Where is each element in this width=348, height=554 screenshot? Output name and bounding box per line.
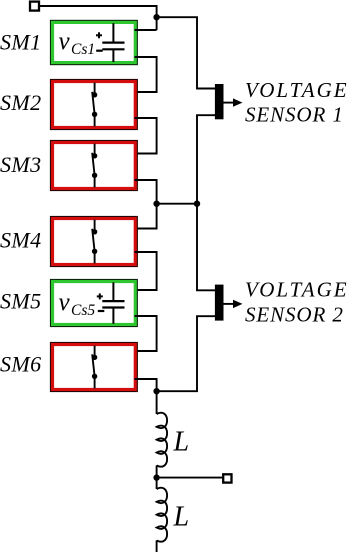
wire branch to voltage sensor 1 top — [157, 17, 215, 88]
submodule SM4 box (red) — [50, 216, 138, 267]
wire bottom tail — [156, 540, 158, 552]
capacitor Cs1 — [96, 23, 125, 62]
svg-text:VOLTAGE: VOLTAGE — [245, 78, 348, 102]
submodule SM5 box (green) — [50, 279, 138, 327]
switch S4 — [92, 220, 97, 264]
svg-text:v: v — [59, 289, 71, 316]
terminal T1 (top-left input square) — [30, 2, 39, 11]
svg-text:v: v — [59, 28, 71, 55]
node N4 (junction dot bottom bus) — [153, 388, 159, 394]
label VOLTAGE SENSOR 2 — [245, 278, 348, 327]
svg-text:SM1: SM1 — [0, 29, 42, 54]
capacitor Cs5 — [97, 282, 125, 323]
label vCs5 — [59, 289, 96, 319]
node N1 (junction dot top bus) — [153, 14, 159, 20]
voltage sensor 2 symbol (bar) — [215, 285, 224, 321]
wire coil1 to node N5 — [156, 465, 158, 489]
wire voltage sensor 2 bottom return — [157, 316, 215, 391]
switch S6 — [92, 346, 97, 389]
switch S2 — [92, 83, 97, 127]
svg-text:SENSOR 2: SENSOR 2 — [245, 302, 344, 326]
arrow of sensor 1 — [224, 102, 236, 104]
wire SM4 bottom to SM5 top — [135, 252, 157, 290]
wire top terminal to bus — [39, 6, 157, 30]
node N3 (junction dot on sensor line) — [194, 201, 200, 207]
voltage sensor 1 symbol (bar) — [215, 84, 224, 119]
svg-text:SENSOR 1: SENSOR 1 — [245, 103, 344, 127]
wire SM6 bottom to node N4 — [135, 379, 157, 414]
svg-text:L: L — [173, 426, 190, 457]
node N5 (output tap junction dot) — [153, 474, 159, 480]
svg-text:Cs1: Cs1 — [71, 41, 95, 58]
wire SM1 top stub — [135, 29, 157, 31]
svg-text:SM6: SM6 — [0, 352, 42, 377]
wire link bus to sensor line — [157, 203, 197, 205]
wire SM3 bottom to SM4 top — [135, 180, 157, 229]
wire SM1 bottom to SM2 top — [135, 57, 157, 92]
label vCs1 — [59, 28, 96, 58]
wire tap to terminal T2 — [157, 477, 223, 479]
wire SM5 bottom to SM6 top — [135, 316, 157, 351]
wire SM2 bottom to SM3 top — [135, 118, 157, 154]
svg-text:SM5: SM5 — [0, 289, 42, 314]
submodule SM3 box (red) — [50, 140, 138, 191]
node N2 (mid junction dot on bus) — [153, 201, 159, 207]
svg-text:L: L — [173, 501, 190, 532]
svg-text:Cs5: Cs5 — [71, 302, 95, 319]
submodule SM6 box (red) — [50, 342, 138, 392]
svg-text:VOLTAGE: VOLTAGE — [245, 278, 348, 302]
arrow of sensor 2 — [224, 303, 236, 305]
switch S3 — [92, 144, 97, 188]
svg-text:SM4: SM4 — [0, 228, 42, 253]
submodule SM2 box (red) — [50, 79, 138, 130]
terminal T2 (output square) — [223, 474, 231, 482]
inductor L1 (arm inductor) — [157, 413, 168, 467]
inductor L2 (lower arm inductor) — [157, 488, 168, 542]
wire voltage sensor 1 bottom return — [197, 115, 215, 204]
svg-text:SM2: SM2 — [0, 90, 42, 115]
submodule SM1 box (green) — [50, 20, 138, 65]
wire sensor line to voltage sensor 2 top — [197, 204, 215, 291]
svg-text:SM3: SM3 — [0, 152, 42, 177]
label VOLTAGE SENSOR 1 — [245, 78, 348, 127]
